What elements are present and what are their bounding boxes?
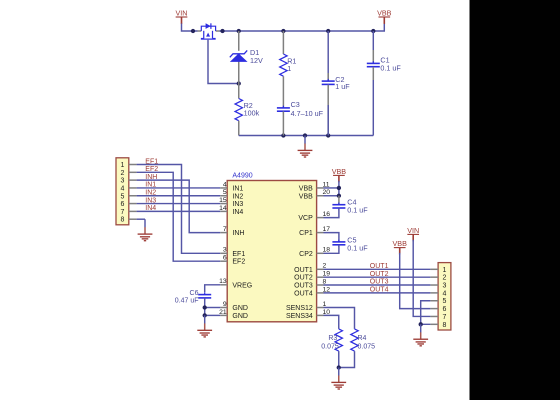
wire net OUT3	[324, 284, 431, 286]
svg-text:OUT2: OUT2	[370, 271, 389, 278]
pin 20 VBB (right)	[299, 189, 330, 200]
svg-text:3: 3	[443, 283, 447, 290]
svg-text:OUT3: OUT3	[370, 279, 389, 286]
supply label VIN (output side)	[407, 226, 419, 241]
pin 4 IN1 (left)	[220, 181, 243, 192]
pin 12 OUT4 (right)	[294, 286, 330, 297]
connector J2 pin 5	[430, 298, 446, 305]
svg-text:VCP: VCP	[298, 215, 313, 222]
connector J2 (motor/power side) body	[438, 263, 451, 330]
connector J2 pin 6	[430, 306, 446, 313]
svg-text:IN1: IN1	[232, 185, 243, 192]
resistor R1 1	[280, 31, 297, 76]
transistor Q1 reverse-protection P-MOSFET	[198, 23, 220, 39]
svg-text:CP1: CP1	[299, 230, 313, 237]
svg-text:0.1 uF: 0.1 uF	[380, 63, 401, 72]
ground (sense resistors)	[331, 368, 346, 390]
svg-text:3: 3	[223, 247, 227, 254]
svg-text:1: 1	[443, 267, 447, 274]
capacitor C5 0.1 uF	[332, 235, 368, 252]
svg-text:SENS12: SENS12	[286, 305, 313, 312]
net label OUT4	[370, 287, 389, 294]
connector J2 pin 3	[430, 283, 446, 290]
connector J1 pin 1	[120, 162, 136, 169]
connector J1 pin 5	[120, 193, 136, 200]
pin 1 SENS12 (right)	[286, 301, 327, 312]
svg-text:21: 21	[219, 309, 227, 316]
connector J1 (logic side) body	[116, 158, 129, 225]
capacitor C1 0.1 uF	[367, 31, 402, 136]
svg-text:4.7–10 uF: 4.7–10 uF	[291, 109, 324, 118]
svg-text:GND: GND	[232, 313, 248, 320]
svg-text:1: 1	[120, 162, 124, 169]
svg-text:8: 8	[443, 322, 447, 329]
pin 2 OUT1 (right)	[294, 263, 326, 274]
svg-text:4: 4	[120, 185, 124, 192]
svg-text:2: 2	[443, 275, 447, 282]
net label OUT3	[370, 279, 389, 286]
pin 16 VCP (right)	[298, 211, 330, 222]
pin 8 OUT3 (right)	[294, 278, 326, 289]
svg-text:6: 6	[443, 306, 447, 313]
svg-text:R3: R3	[328, 335, 337, 342]
net label INH	[145, 174, 157, 181]
wire bottom rail of input filter	[239, 135, 374, 137]
svg-text:1 uF: 1 uF	[335, 82, 350, 91]
wire net IN3	[137, 203, 221, 205]
wire net IN2	[137, 195, 221, 197]
svg-text:A4990: A4990	[232, 173, 252, 180]
wire top rail (FET drain to VBB)	[220, 24, 385, 32]
svg-text:OUT1: OUT1	[370, 263, 389, 270]
capacitor C3 4.7-10 uF	[277, 76, 324, 135]
pin 6 EF2 (left)	[220, 255, 245, 266]
ground (input filter)	[298, 136, 313, 158]
supply label VBB (output side)	[393, 239, 408, 254]
pin 7 INH (left)	[220, 226, 244, 237]
svg-text:R4: R4	[358, 335, 367, 342]
svg-text:7: 7	[223, 226, 227, 233]
svg-text:GND: GND	[232, 305, 248, 312]
ground (right connector)	[413, 324, 428, 346]
connector J1 pin 2	[120, 170, 136, 177]
svg-text:14: 14	[219, 205, 227, 212]
svg-text:12V: 12V	[250, 56, 263, 65]
svg-text:IN3: IN3	[232, 201, 243, 208]
wire SENS34 to R3	[324, 315, 339, 329]
svg-text:100k: 100k	[244, 108, 260, 117]
svg-text:0.1 uF: 0.1 uF	[347, 243, 368, 252]
pin 5 IN2 (left)	[220, 189, 243, 200]
svg-text:EF2: EF2	[232, 259, 245, 266]
resistor R3 0.075	[321, 329, 342, 351]
resistor R2 100k	[235, 84, 260, 136]
junction dots on bottom rail	[281, 133, 330, 137]
svg-text:0.47 uF: 0.47 uF	[175, 298, 199, 305]
svg-text:OUT4: OUT4	[294, 290, 313, 297]
pin 18 CP2 (right)	[299, 247, 330, 258]
wire C5 to CP2 pin 18	[324, 245, 339, 254]
net label OUT1	[370, 263, 389, 270]
wire VBB to connector pin 6	[400, 253, 431, 309]
wire net EF2 (pin2 to IC)	[137, 172, 221, 261]
pin 11 VBB (right)	[299, 181, 330, 192]
connector J2 pin 1	[430, 267, 446, 274]
svg-text:5: 5	[443, 298, 447, 305]
connector J2 pin 2	[430, 275, 446, 282]
wire net IN4	[137, 210, 221, 212]
op-amp U1 A4990 motor driver IC body	[227, 173, 316, 322]
svg-text:SENS34: SENS34	[286, 313, 313, 320]
svg-text:0.075: 0.075	[358, 344, 376, 351]
pin 21 GND (left)	[219, 309, 248, 320]
ground (IC GND pins)	[197, 315, 212, 337]
wire net OUT1	[324, 268, 431, 270]
wire VIN to connector pin 7	[413, 240, 430, 317]
supply label VBB (charge pump)	[332, 167, 347, 182]
capacitor C2 1 uF	[322, 31, 351, 136]
net label IN1	[145, 182, 156, 189]
transparent padding area (renders black)	[470, 0, 560, 400]
wire VREG to C6	[205, 285, 221, 293]
connector J1 pin 4	[120, 185, 136, 192]
net label IN4	[145, 205, 156, 212]
node junction dots on top rail	[191, 29, 376, 33]
svg-text:8: 8	[120, 217, 124, 224]
svg-text:OUT2: OUT2	[294, 275, 313, 282]
wire VIN stem to rail	[182, 24, 198, 32]
wire pin8 to ground	[137, 218, 145, 220]
svg-text:5: 5	[120, 193, 124, 200]
svg-text:15: 15	[219, 197, 227, 204]
net label IN3	[145, 197, 156, 204]
svg-text:C6: C6	[190, 290, 199, 297]
capacitor C4 0.1 uF	[332, 196, 368, 215]
svg-text:IN2: IN2	[232, 193, 243, 200]
svg-text:VBB: VBB	[299, 185, 313, 192]
svg-text:7: 7	[120, 209, 124, 216]
svg-text:13: 13	[219, 278, 227, 285]
svg-text:2: 2	[120, 170, 124, 177]
svg-text:6: 6	[120, 201, 124, 208]
net label OUT2	[370, 271, 389, 278]
svg-text:EF1: EF1	[232, 251, 245, 258]
connector J1 pin 3	[120, 178, 136, 185]
wire SENS12 to R4	[324, 308, 355, 329]
connector J2 pin 7	[430, 314, 446, 321]
svg-text:OUT1: OUT1	[294, 267, 313, 274]
wire R3/R4 bottoms to ground node	[337, 351, 355, 370]
resistor R4 0.075	[351, 329, 375, 351]
wire net INH (pin3 to IC)	[137, 180, 221, 232]
pin 14 IN4 (left)	[219, 205, 243, 216]
connector J2 pin 4	[430, 290, 446, 297]
svg-text:VREG: VREG	[232, 282, 252, 289]
svg-text:3: 3	[120, 178, 124, 185]
wire connector pin 5 to pin 8 / ground	[419, 301, 431, 327]
connector J1 pin 7	[120, 209, 136, 216]
connector J1 pin 8	[120, 217, 136, 224]
svg-text:0.1 uF: 0.1 uF	[347, 205, 368, 214]
wire FET gate to R2/D1 node	[208, 40, 241, 86]
svg-text:6: 6	[223, 255, 227, 262]
svg-text:CP2: CP2	[299, 251, 313, 258]
svg-text:9: 9	[223, 301, 227, 308]
supply label VIN (top)	[176, 9, 188, 24]
svg-text:4: 4	[223, 181, 227, 188]
svg-text:OUT4: OUT4	[370, 287, 389, 294]
pin 17 CP1 (right)	[299, 226, 330, 237]
wire C4 to VCP pin 16	[324, 208, 339, 217]
pin 19 OUT2 (right)	[294, 271, 330, 282]
pin 13 VREG (left)	[219, 278, 252, 289]
pin 15 IN3 (left)	[219, 197, 243, 208]
svg-text:5: 5	[223, 189, 227, 196]
svg-text:C3: C3	[291, 100, 300, 109]
svg-text:1: 1	[287, 64, 291, 73]
capacitor C6 0.47 uF	[175, 290, 211, 304]
svg-text:VIN: VIN	[407, 226, 419, 235]
wire CP1 to C5	[324, 233, 339, 242]
svg-text:INH: INH	[232, 230, 244, 237]
svg-text:4: 4	[443, 290, 447, 297]
svg-text:VBB: VBB	[393, 239, 408, 248]
svg-text:0.075: 0.075	[321, 344, 339, 351]
svg-text:VIN: VIN	[176, 9, 188, 18]
svg-text:VBB: VBB	[377, 9, 392, 18]
net label EF2	[145, 166, 158, 173]
wire net OUT2	[324, 276, 431, 278]
svg-text:IN4: IN4	[232, 209, 243, 216]
pin 3 EF1 (left)	[220, 247, 245, 258]
net label EF1	[145, 158, 158, 165]
svg-text:7: 7	[443, 314, 447, 321]
wire net EF1 (pin1 to IC)	[137, 165, 221, 254]
svg-text:VBB: VBB	[299, 193, 313, 200]
net label IN2	[145, 190, 156, 197]
svg-text:VBB: VBB	[332, 167, 347, 176]
diode D1 zener 12V	[230, 31, 263, 84]
wire VBB to IC pins 11/20	[324, 181, 342, 198]
pin 9 GND (left)	[220, 301, 248, 312]
connector J1 pin 6	[120, 201, 136, 208]
wire net IN1	[137, 187, 221, 189]
wire C6 to GND pins	[203, 298, 221, 318]
pin 10 SENS34 (right)	[286, 309, 330, 320]
connector J2 pin 8	[430, 322, 446, 329]
svg-text:OUT3: OUT3	[294, 283, 313, 290]
supply label VBB (top)	[377, 9, 392, 24]
wire net OUT4	[324, 292, 431, 294]
ground (connector J1 pin 8)	[138, 219, 153, 241]
